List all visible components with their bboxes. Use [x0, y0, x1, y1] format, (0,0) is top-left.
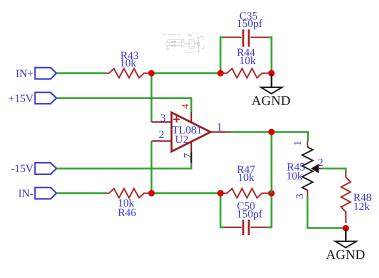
capacitor C35: [224, 29, 268, 46]
svg-text:+15V: +15V: [8, 93, 33, 105]
resistor R43: [106, 69, 149, 78]
svg-text:R46: R46: [118, 207, 137, 219]
junction R46/R47 node: [217, 190, 223, 196]
wire output to pot top: [231, 132, 308, 141]
svg-text:2: 2: [159, 129, 165, 141]
potentiometer R45 wiper arrow: [311, 164, 319, 173]
svg-text:10k: 10k: [120, 58, 137, 70]
junction output/feedback: [268, 129, 274, 135]
port +15V: [8, 92, 56, 105]
svg-text:3: 3: [160, 113, 166, 125]
wire +15V rail to pin 4: [57, 98, 192, 112]
junction R47/feedback node: [268, 190, 274, 196]
resistor R48: [341, 173, 350, 224]
svg-text:IN+: IN+: [16, 68, 34, 80]
wire IN- to R46: [57, 192, 107, 194]
svg-text:AGND: AGND: [326, 247, 365, 262]
port IN+: [16, 68, 57, 81]
port IN-: [18, 188, 56, 200]
op-amp U2 pin 1 stub: [211, 131, 232, 133]
wire pot pin3 to ground rail: [308, 196, 346, 228]
op-amp U2 pin 7 stub lower (dark) segment: [190, 153, 192, 164]
svg-text:-15V: -15V: [11, 163, 34, 175]
svg-text:AGND: AGND: [252, 93, 291, 108]
junction node B: [148, 190, 154, 196]
potentiometer R45 wiper pin 2 stub: [319, 168, 322, 170]
ghost thumbnail schematic (faint grey): [164, 34, 205, 52]
svg-text:2: 2: [318, 157, 324, 169]
op-amp U2 TL081 body: [172, 113, 211, 152]
junction ground rail: [343, 225, 349, 231]
ground AGND (bottom): [326, 229, 365, 262]
wire wiper to R48: [322, 169, 346, 173]
svg-text:10k: 10k: [239, 55, 256, 67]
svg-text:4: 4: [181, 104, 192, 109]
wire feedback vertical: [271, 132, 273, 193]
ground AGND (top): [252, 74, 291, 108]
wire node A down to pin 3: [151, 73, 153, 122]
svg-text:12k: 12k: [353, 201, 370, 213]
resistor R47: [221, 189, 272, 198]
op-amp U2 pin 2 stub: [152, 140, 172, 142]
svg-text:150pf: 150pf: [237, 208, 263, 220]
wire -15V rail to pin 7: [57, 163, 192, 169]
wire pin 2 down to IN- row: [151, 141, 153, 193]
op-amp U2 pin 3 stub: [152, 121, 172, 123]
op-amp U2 pin 4 stub: [190, 112, 192, 123]
op-amp U2 pin 7 stub: [190, 142, 192, 153]
resistor R44: [221, 69, 272, 78]
svg-text:1: 1: [217, 122, 223, 134]
wire IN+ to R43: [57, 72, 107, 74]
junction R44/AGND node: [268, 70, 274, 76]
svg-text:7: 7: [183, 153, 194, 158]
svg-text:10k: 10k: [286, 170, 303, 182]
potentiometer R45 pin3 stub: [307, 190, 309, 196]
capacitor C50: [224, 220, 268, 235]
wire node B to R47 network: [149, 192, 221, 194]
svg-text:3: 3: [295, 194, 306, 199]
op-amp plus marking: [173, 116, 179, 122]
junction R43/R44 node: [217, 70, 223, 76]
svg-text:1: 1: [293, 141, 304, 146]
wire node A to RC network: [149, 72, 221, 74]
potentiometer R45 pin1 stub: [307, 141, 309, 147]
svg-text:10k: 10k: [238, 172, 255, 184]
resistor R46: [106, 189, 149, 198]
svg-text:150pf: 150pf: [237, 18, 263, 30]
svg-text:U2: U2: [175, 134, 188, 146]
capacitor C50 branch wires: [221, 193, 272, 227]
junction node A: [148, 70, 154, 76]
capacitor C35 branch wires: [221, 37, 272, 73]
svg-text:IN-: IN-: [18, 188, 34, 200]
potentiometer R45 body: [302, 147, 313, 190]
port -15V: [11, 163, 57, 175]
